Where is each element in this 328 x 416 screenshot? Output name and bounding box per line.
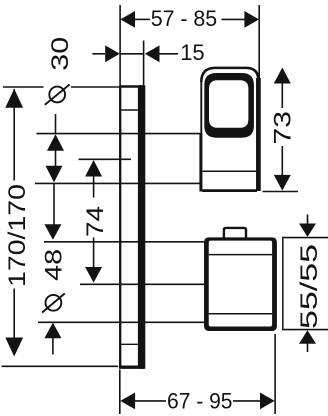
extension line right of 67-95 (x=275.1) xyxy=(274,334,276,414)
arrow Ø30 bottom (points down, tip y=182.4) xyxy=(46,166,63,183)
dimension texts xyxy=(151,6,233,413)
dimension line 55/55 arrows tails (x=307.5) xyxy=(307,215,309,225)
svg-text:55/55: 55/55 xyxy=(296,244,323,329)
dimension line Ø30 / Ø48 column (x=55) xyxy=(55,114,57,134)
extension line Ø48 bottom / lower stem line of volume valve (y=322.3) xyxy=(38,321,204,323)
extension line 55/55 top (y=237.3) xyxy=(282,237,328,239)
arrow of 15 right (points left, tip x=144.9) xyxy=(145,45,160,62)
arrow 55/55 top (points down, tip y=236.6) xyxy=(299,224,316,237)
arrow 67-95 right (points right, tip x=274.6) xyxy=(260,393,275,410)
arrow Ø48 bottom (points up, tip y=322.6) xyxy=(44,323,61,339)
dimension line 67-95 (y=400.9) xyxy=(135,400,166,402)
svg-text:170/170: 170/170 xyxy=(4,184,31,287)
handle silhouette left edge upper (thin) xyxy=(200,80,202,134)
dimension line Ø74 (x=93.6) xyxy=(93,175,95,198)
volume control valve body (bottom) xyxy=(204,228,277,331)
arrow 73 top (points up, tip y=67.5) xyxy=(274,68,291,84)
handle silhouette top edge with corners xyxy=(201,68,258,82)
extension line left of 67-95 (x=119.8, bottom) xyxy=(119,370,121,415)
dimension line 57-85 (y=19.4) xyxy=(135,18,150,20)
plate top edge xyxy=(119,85,144,88)
extension line Ø74 bottom (y=284.3) xyxy=(80,283,204,285)
extension line 55/55 bottom (y=330.2) xyxy=(282,329,328,331)
arrow Ø74 bottom (points down, tip y=282.6) xyxy=(85,267,102,283)
wall plate (escutcheon), side view xyxy=(119,85,144,369)
svg-text:73: 73 xyxy=(270,111,297,145)
svg-text:57 - 85: 57 - 85 xyxy=(151,6,218,31)
arrow 55/55 bottom (points up, tip y=330.9) xyxy=(299,330,316,343)
thermostat handle (top control) xyxy=(201,68,259,192)
vertical connector line of 55/55 (x=282.8) xyxy=(282,238,284,329)
handle silhouette right edge (thick shaded) xyxy=(256,78,261,191)
arrow left of 57-85 (points left, tip x=120.4) xyxy=(120,11,135,28)
arrow 67-95 left (points left, tip x=120.3) xyxy=(120,393,135,410)
handle silhouette left edge lower (thicker) xyxy=(199,133,202,192)
plate left edge xyxy=(119,86,121,369)
plate inner bevel line top xyxy=(121,109,137,111)
body inner line top xyxy=(209,254,272,256)
extension line left of 57-85 dimension (x=120, top) xyxy=(119,5,121,86)
svg-text:15: 15 xyxy=(180,40,204,65)
extension line Ø30 top (y=133.6) xyxy=(36,133,201,135)
dimension line 15 (y=53.8) xyxy=(92,53,105,55)
svg-text:48: 48 xyxy=(41,249,68,281)
extension line bottom of 170/170 = plate bottom extended (y=366.3) xyxy=(2,365,119,367)
dimension line 170/170 (x=14.2) xyxy=(13,89,15,108)
arrow right of 57-85 (points right, tip x=259) xyxy=(244,11,259,28)
extension line Ø48 top / upper stem line of volume valve (y=241.8) xyxy=(44,241,204,243)
cap bump on body xyxy=(224,228,246,239)
handle grip ring (thick rounded ring, non-uniform thickness) xyxy=(204,73,254,138)
extension line right of 57-85 dimension (x=259) xyxy=(258,5,260,80)
arrow 170/170 top (points up, tip y=88.8) xyxy=(5,89,23,108)
arrow Ø30 top (points up, tip y=134.2) xyxy=(47,134,64,151)
arrow Ø48 top (points down, tip y=239.8) xyxy=(44,224,61,240)
svg-text:67 - 95: 67 - 95 xyxy=(167,388,233,413)
plate inner bevel line bottom xyxy=(121,343,137,345)
extension line top of 170/170 (y=87, broken by O-slash glyph) xyxy=(3,86,44,88)
diameter symbol of Ø 30 (circle with slash) xyxy=(45,85,70,105)
handle bottom edge xyxy=(202,189,257,192)
extension line for 15 dimension (x=143.6) xyxy=(143,41,145,88)
plate right edge (thick shaded) xyxy=(138,85,145,369)
body inner line bottom xyxy=(209,313,272,315)
arrow Ø74 top (points up, tip y=159.3) xyxy=(85,160,102,177)
arrow 73 bottom (points down, tip y=190.6) xyxy=(274,175,291,191)
extension line Ø30 bottom (y=183.4) xyxy=(35,182,201,184)
svg-text:74: 74 xyxy=(82,206,109,237)
extension line Ø74 top (y=158.8) xyxy=(79,158,132,160)
extension line for 73 dimension bottom (y=191.5) xyxy=(263,191,299,193)
plate bottom edge xyxy=(119,366,144,369)
body box (thick outline, per-side thickness via evenodd fill) xyxy=(204,237,277,331)
diameter symbol of Ø 48 (circle with slash) xyxy=(42,293,65,312)
handle collar line xyxy=(202,170,256,172)
arrow of 15 left (points right, tip x=119.8) xyxy=(105,45,120,62)
arrow 170/170 bottom (points down, tip y=356.5) xyxy=(5,338,23,357)
dimension line 73 (x=282.3) xyxy=(281,83,283,109)
svg-text:30: 30 xyxy=(47,37,74,71)
